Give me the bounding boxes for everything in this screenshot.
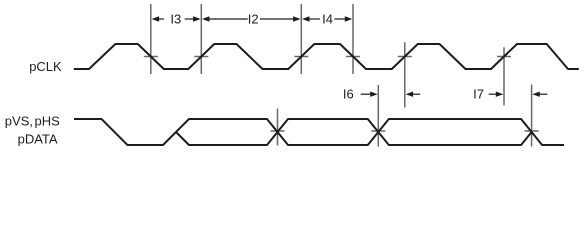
svg-text:pCLK: pCLK — [29, 59, 62, 74]
svg-text:I2: I2 — [248, 11, 259, 26]
svg-text:pDATA: pDATA — [18, 132, 58, 147]
svg-text:I3: I3 — [170, 11, 181, 26]
svg-text:I6: I6 — [343, 87, 354, 102]
svg-text:pVS,pHS: pVS,pHS — [5, 113, 60, 128]
svg-text:I4: I4 — [322, 11, 333, 26]
svg-text:I7: I7 — [473, 87, 484, 102]
